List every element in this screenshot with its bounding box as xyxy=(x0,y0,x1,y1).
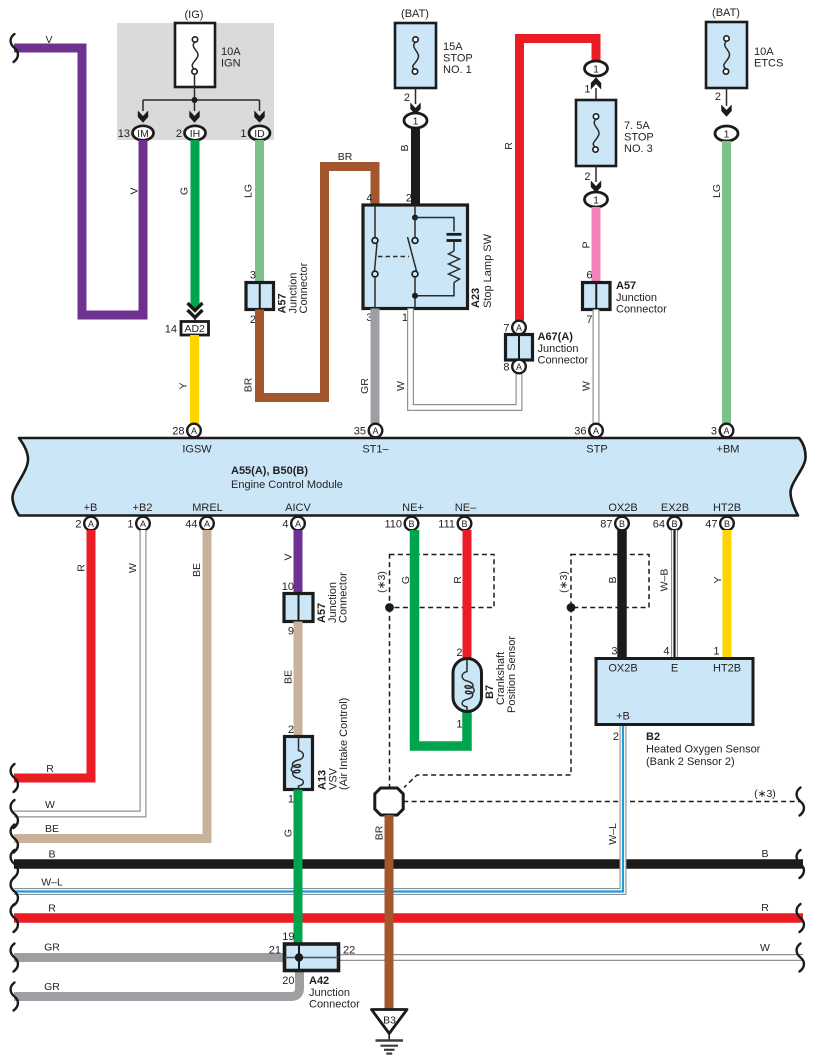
fuse 10A IGN xyxy=(175,9,241,87)
pin 110 B NE+ xyxy=(384,517,418,531)
VSV A13 (air intake control) xyxy=(285,698,351,806)
svg-text:BE: BE xyxy=(191,563,203,577)
svg-text:B: B xyxy=(399,144,411,151)
wire W (white) +B2 to left edge xyxy=(14,530,143,814)
svg-text:1: 1 xyxy=(127,519,133,531)
pin 44 A MREL xyxy=(185,517,214,531)
crankshaft position sensor B7 xyxy=(453,636,518,731)
svg-text:1: 1 xyxy=(713,646,719,658)
svg-text:B: B xyxy=(48,849,55,861)
shield dashed to right edge xyxy=(403,801,801,803)
wire W-L (white-blue) horizontal to B2 +B xyxy=(14,725,623,892)
break at right edge (shield dashed) xyxy=(797,788,804,816)
svg-text:2: 2 xyxy=(288,724,294,736)
svg-text:111: 111 xyxy=(438,519,455,531)
fuse 7.5A STOP NO.3 xyxy=(576,100,654,166)
node: bus junction xyxy=(192,97,198,103)
svg-text:OX2B: OX2B xyxy=(608,663,637,675)
svg-text:A: A xyxy=(593,426,599,436)
svg-text:W: W xyxy=(760,942,770,954)
svg-text:(Bank 2 Sensor 2): (Bank 2 Sensor 2) xyxy=(646,756,735,768)
break at right edge (W wire) xyxy=(797,944,804,972)
svg-text:+B: +B xyxy=(616,711,630,723)
svg-text:+B2: +B2 xyxy=(133,502,153,514)
svg-text:A: A xyxy=(723,426,729,436)
svg-text:A: A xyxy=(191,426,197,436)
svg-text:+B: +B xyxy=(84,502,98,514)
svg-text:R: R xyxy=(503,142,515,150)
svg-text:W–B: W–B xyxy=(659,569,671,592)
arrow down xyxy=(591,181,601,193)
wire W-B (white-black) EX2B to B2 pin4 xyxy=(671,530,678,659)
wire BR (brown) octagon to B3 ground xyxy=(385,815,394,1011)
shield box 2 (dashed) around B xyxy=(558,555,649,612)
break at left edge (R +B wire) xyxy=(11,764,18,792)
svg-text:A: A xyxy=(88,519,94,529)
svg-text:2: 2 xyxy=(176,128,182,140)
svg-text:A: A xyxy=(516,323,522,333)
svg-text:Stop Lamp SW: Stop Lamp SW xyxy=(482,233,494,308)
connector 1 (oval) xyxy=(404,113,427,128)
svg-text:A: A xyxy=(372,426,378,436)
svg-text:22: 22 xyxy=(343,945,355,957)
svg-text:87: 87 xyxy=(600,519,612,531)
right switch xyxy=(414,205,416,215)
svg-text:1: 1 xyxy=(593,64,599,76)
svg-text:Connector: Connector xyxy=(298,262,310,313)
svg-text:ID: ID xyxy=(254,128,265,140)
chevron double arrow above AD2 xyxy=(188,303,203,322)
svg-text:G: G xyxy=(179,187,191,195)
svg-text:35: 35 xyxy=(354,426,366,438)
svg-text:Y: Y xyxy=(178,382,190,389)
svg-text:A23: A23 xyxy=(470,288,482,308)
pin 36 A STP xyxy=(574,424,603,438)
pin 87 B OX2B xyxy=(600,517,629,531)
svg-text:B: B xyxy=(408,519,414,529)
svg-text:2: 2 xyxy=(613,731,619,743)
svg-text:1: 1 xyxy=(456,719,462,731)
svg-text:BR: BR xyxy=(243,377,255,392)
pin 2 IH xyxy=(176,126,206,140)
wire: IGN fuse lead + bus xyxy=(143,74,260,111)
svg-text:W–L: W–L xyxy=(607,823,619,845)
svg-text:ETCS: ETCS xyxy=(754,58,783,70)
svg-text:+BM: +BM xyxy=(717,444,740,456)
wire G (green) A13 pin1 to A42 pin19 xyxy=(294,790,303,945)
ECM A55(A) B50(B) band xyxy=(12,438,805,516)
svg-text:10A: 10A xyxy=(754,46,774,58)
svg-text:21: 21 xyxy=(269,945,281,957)
svg-text:Position Sensor: Position Sensor xyxy=(506,636,518,713)
svg-text:28: 28 xyxy=(172,426,184,438)
wire R (red) NE- to B7 pin2 xyxy=(463,530,472,660)
arrow up into oval xyxy=(591,77,601,89)
svg-text:A57: A57 xyxy=(616,280,636,292)
svg-text:AICV: AICV xyxy=(285,502,311,514)
svg-text:HT2B: HT2B xyxy=(713,502,741,514)
svg-text:A55(A), B50(B): A55(A), B50(B) xyxy=(231,465,308,477)
wire G (green) IH down xyxy=(191,140,200,305)
svg-text:(∗3): (∗3) xyxy=(376,571,388,593)
svg-text:B: B xyxy=(671,519,677,529)
svg-text:V: V xyxy=(45,34,52,46)
svg-text:HT2B: HT2B xyxy=(713,663,741,675)
junction connector A57 (left) xyxy=(246,262,310,326)
svg-text:A42: A42 xyxy=(309,975,329,987)
svg-text:Connector: Connector xyxy=(338,572,350,623)
svg-text:AD2: AD2 xyxy=(184,323,205,335)
svg-text:2: 2 xyxy=(404,92,410,104)
wire GR (gray) A23 pin3 to ST1- xyxy=(371,309,380,425)
fuse 15A STOP NO.1 xyxy=(395,8,473,88)
svg-text:Connector: Connector xyxy=(616,304,667,316)
svg-text:B2: B2 xyxy=(646,731,660,743)
svg-text:BE: BE xyxy=(283,670,295,684)
svg-text:Connector: Connector xyxy=(538,355,589,367)
svg-text:(BAT): (BAT) xyxy=(401,8,429,20)
IG power block (gray) xyxy=(117,23,274,140)
pin 3 A +BM xyxy=(711,424,733,438)
junction connector A67(A) xyxy=(503,321,588,374)
svg-text:MREL: MREL xyxy=(192,502,223,514)
pin 28 A IGSW xyxy=(172,424,201,438)
svg-text:R: R xyxy=(761,902,769,914)
svg-text:A67(A): A67(A) xyxy=(538,331,574,343)
svg-text:20: 20 xyxy=(282,975,294,987)
svg-text:GR: GR xyxy=(44,942,60,954)
svg-text:3: 3 xyxy=(250,270,256,282)
svg-text:R: R xyxy=(452,576,464,584)
svg-text:8: 8 xyxy=(503,362,509,374)
junction connector A57 (middle) xyxy=(282,572,350,638)
svg-text:STP: STP xyxy=(586,444,607,456)
svg-text:15A: 15A xyxy=(443,41,463,53)
wire P (pink) to A57 pin6 xyxy=(592,207,601,283)
svg-text:Junction: Junction xyxy=(538,343,579,355)
svg-text:14: 14 xyxy=(165,324,177,336)
wire R (red) +B to left edge xyxy=(14,530,91,778)
svg-text:STOP: STOP xyxy=(624,132,654,144)
wire LG to +BM xyxy=(722,141,731,424)
svg-text:(BAT): (BAT) xyxy=(712,7,740,19)
break at left edge (W +B2 wire) xyxy=(11,800,18,828)
svg-text:10: 10 xyxy=(282,581,294,593)
svg-text:ST1–: ST1– xyxy=(362,444,389,456)
svg-text:B: B xyxy=(619,519,625,529)
wire LG (light green) ID down xyxy=(255,140,264,283)
wire BE (beige) MREL to left edge xyxy=(14,530,207,839)
shield box 1 (dashed) around G and R xyxy=(376,555,494,612)
svg-text:LG: LG xyxy=(243,184,255,198)
svg-text:(∗3): (∗3) xyxy=(754,788,776,800)
svg-text:64: 64 xyxy=(653,519,665,531)
svg-text:B: B xyxy=(461,519,467,529)
svg-text:Connector: Connector xyxy=(309,999,360,1011)
svg-text:Heated Oxygen Sensor: Heated Oxygen Sensor xyxy=(646,744,761,756)
break at left edge (W-L wire) xyxy=(11,878,18,906)
svg-text:BE: BE xyxy=(45,823,59,835)
svg-text:V: V xyxy=(283,553,295,560)
break at left edge (B wire) xyxy=(11,850,18,878)
connector 1 (oval) above NO.3 fuse xyxy=(585,61,608,76)
svg-text:G: G xyxy=(283,829,295,837)
wire W (white) A42 pin22 to right edge xyxy=(337,954,803,961)
svg-text:E: E xyxy=(671,663,678,675)
arrow down xyxy=(721,105,731,117)
svg-text:4: 4 xyxy=(366,193,372,205)
svg-text:19: 19 xyxy=(282,931,294,943)
wire BR (brown) A57 to A23 pin4 xyxy=(260,167,376,398)
pin 35 A ST1- xyxy=(354,424,383,438)
svg-text:B: B xyxy=(724,519,730,529)
svg-text:A: A xyxy=(140,519,146,529)
svg-text:6: 6 xyxy=(586,270,592,282)
svg-text:GR: GR xyxy=(359,378,371,394)
svg-text:W: W xyxy=(45,799,55,811)
svg-text:4: 4 xyxy=(663,646,669,658)
connector AD2 xyxy=(165,322,209,336)
svg-text:4: 4 xyxy=(282,519,288,531)
svg-text:LG: LG xyxy=(711,184,723,198)
pin 64 B EX2B xyxy=(653,517,682,531)
shield ground node (octagon) xyxy=(375,788,403,815)
svg-text:2: 2 xyxy=(406,193,412,205)
arrow into ID xyxy=(254,111,264,123)
arrow into IH xyxy=(189,111,199,123)
left switch xyxy=(374,205,376,238)
svg-text:Junction: Junction xyxy=(309,987,350,999)
svg-text:(∗3): (∗3) xyxy=(558,571,570,593)
break at left edge (BE wire) xyxy=(11,825,18,853)
wire R (red) from STOP fuses to A67 pin7 xyxy=(520,39,597,321)
svg-text:36: 36 xyxy=(574,426,586,438)
svg-text:R: R xyxy=(76,564,88,572)
svg-text:1: 1 xyxy=(413,116,419,128)
capacitor + resistor branch xyxy=(415,218,454,232)
svg-text:NO. 3: NO. 3 xyxy=(624,143,653,155)
svg-text:1: 1 xyxy=(584,84,590,96)
svg-text:7: 7 xyxy=(503,323,509,335)
fuse 10A ETCS xyxy=(706,7,783,88)
connector 1 (oval) xyxy=(715,126,738,141)
svg-text:1: 1 xyxy=(593,195,599,207)
mechanical link dashed xyxy=(378,256,409,258)
wire GR (gray) to A42 pin21 xyxy=(14,953,286,962)
wire G (green) NE+ to B7 pin1 xyxy=(415,530,468,746)
svg-text:G: G xyxy=(400,576,412,584)
svg-text:BR: BR xyxy=(338,151,353,163)
svg-text:NO. 1: NO. 1 xyxy=(443,64,472,76)
shield drain 1 (dashed) xyxy=(389,608,391,788)
wire B (black) horizontal full width xyxy=(14,859,803,869)
svg-text:Junction: Junction xyxy=(616,292,657,304)
break at right edge (B wire) xyxy=(797,850,804,878)
wire GR (gray) lower to A42 pin20 xyxy=(14,969,300,997)
pin 13 IM xyxy=(118,126,154,140)
svg-text:BR: BR xyxy=(374,825,386,840)
svg-text:B: B xyxy=(761,848,768,860)
svg-text:A: A xyxy=(516,362,522,372)
svg-text:W–L: W–L xyxy=(41,877,63,889)
green wire arrow tip xyxy=(191,303,200,311)
pin 47 B HT2B xyxy=(705,517,734,531)
svg-text:A: A xyxy=(295,519,301,529)
wire Y (yellow) AD2 to IGSW xyxy=(190,335,199,424)
svg-text:3: 3 xyxy=(711,426,717,438)
svg-text:B: B xyxy=(607,576,619,583)
svg-text:Y: Y xyxy=(712,576,724,583)
svg-text:1: 1 xyxy=(240,128,246,140)
wire B (black) to A23 pin 2 xyxy=(411,128,420,206)
break at right edge (R wire) xyxy=(797,904,804,932)
svg-text:IGN: IGN xyxy=(221,58,241,70)
stop lamp switch A23 xyxy=(363,193,494,325)
svg-text:9: 9 xyxy=(288,626,294,638)
svg-text:2: 2 xyxy=(715,91,721,103)
svg-text:W: W xyxy=(395,381,407,391)
svg-text:Engine Control Module: Engine Control Module xyxy=(231,479,343,491)
svg-text:R: R xyxy=(46,763,54,775)
svg-text:NE+: NE+ xyxy=(402,502,424,514)
svg-text:(Air Intake Control): (Air Intake Control) xyxy=(338,698,350,790)
arrow down xyxy=(410,103,420,115)
svg-text:IM: IM xyxy=(137,128,149,140)
svg-text:7: 7 xyxy=(586,314,592,326)
svg-text:IGSW: IGSW xyxy=(182,444,212,456)
wire W (white) A57 pin7 to STP xyxy=(593,310,600,425)
svg-text:STOP: STOP xyxy=(443,53,473,65)
svg-text:V: V xyxy=(129,187,141,194)
break at left edge (R wire) xyxy=(11,904,18,932)
wire BE A57 pin9 to A13 pin2 xyxy=(294,622,303,738)
svg-text:3: 3 xyxy=(611,646,617,658)
pin 1 ID xyxy=(240,126,270,140)
svg-text:2: 2 xyxy=(584,171,590,183)
svg-text:EX2B: EX2B xyxy=(661,502,689,514)
svg-text:7. 5A: 7. 5A xyxy=(624,120,650,132)
svg-text:IH: IH xyxy=(190,128,201,140)
pin 4 A AICV xyxy=(282,517,304,531)
svg-text:OX2B: OX2B xyxy=(608,502,637,514)
pin 1 A +B2 xyxy=(127,517,149,531)
break at left edge (GR wire upper) xyxy=(11,944,18,972)
wire W (white) A23 pin1 to A67 pin8 xyxy=(411,309,520,408)
svg-text:1: 1 xyxy=(724,129,730,141)
connector 1 (oval) xyxy=(585,192,608,207)
pin 111 B NE- xyxy=(438,517,471,531)
junction connector A42 xyxy=(269,931,360,1011)
wire B (black) OX2B to B2 pin3 xyxy=(617,530,627,659)
svg-text:B3: B3 xyxy=(383,1015,396,1027)
wire: fuse lead pin 2 xyxy=(415,88,417,104)
svg-text:2: 2 xyxy=(75,519,81,531)
break at left edge (GR wire lower) xyxy=(11,983,18,1011)
ground B3 xyxy=(372,1010,408,1054)
svg-text:W: W xyxy=(127,563,139,573)
svg-text:NE–: NE– xyxy=(455,502,477,514)
svg-text:47: 47 xyxy=(705,519,717,531)
svg-text:10A: 10A xyxy=(221,46,241,58)
wire V (purple) AICV to A57 pin10 xyxy=(294,530,303,594)
junction connector A57 (right) xyxy=(583,270,668,327)
heated oxygen sensor B2 xyxy=(596,646,761,769)
wire Y (yellow) HT2B to B2 pin1 xyxy=(723,530,732,659)
svg-text:GR: GR xyxy=(44,981,60,993)
svg-text:P: P xyxy=(581,241,593,248)
svg-text:(IG): (IG) xyxy=(185,9,204,21)
svg-text:1: 1 xyxy=(288,794,294,806)
shield drain 2 (dashed) xyxy=(404,608,571,788)
svg-text:110: 110 xyxy=(384,519,402,531)
break at left edge (V) xyxy=(11,34,18,62)
wire R (red) horizontal full width xyxy=(14,913,803,923)
svg-text:R: R xyxy=(48,903,56,915)
svg-text:13: 13 xyxy=(118,128,130,140)
pin 2 A +B xyxy=(75,517,97,531)
svg-text:A: A xyxy=(204,519,210,529)
svg-text:44: 44 xyxy=(185,519,197,531)
svg-text:2: 2 xyxy=(456,647,462,659)
svg-text:W: W xyxy=(581,381,593,391)
arrow into IM xyxy=(138,111,148,123)
wire V (purple) IM to left edge xyxy=(14,48,143,315)
